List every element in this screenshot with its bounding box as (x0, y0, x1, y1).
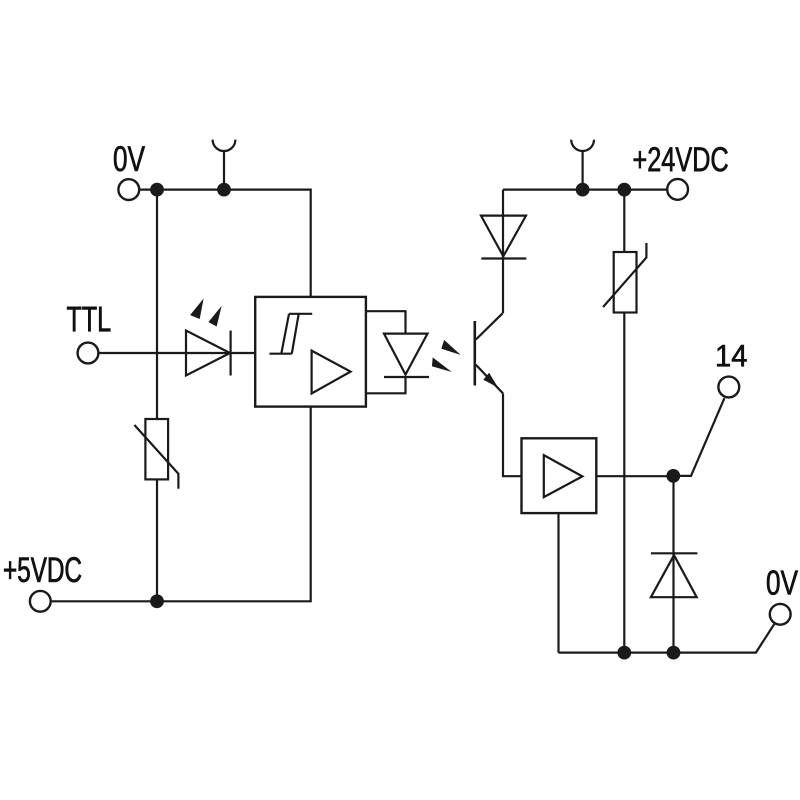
label +5VDC (4, 557, 81, 582)
amplifier box U2 (522, 438, 597, 513)
node A junction (150, 183, 164, 197)
varistor RV2 diagonal (603, 243, 646, 307)
optical coupling arrow 1 (441, 340, 460, 355)
terminal 0V output (770, 604, 791, 625)
varistor RV2 body (614, 252, 637, 313)
wire node F down to zener D4 (672, 476, 674, 653)
wire node A down to varistor RV1 top (156, 190, 158, 419)
wire collector up to diode D3 (502, 190, 504, 314)
opto LED D2 triangle (384, 334, 428, 375)
label +24VDC (634, 147, 728, 172)
wire node E down to varistor RV2 (623, 190, 625, 252)
node F junction (output) (666, 469, 680, 483)
wire Schmitt box bottom to +5VDC rail (157, 407, 311, 602)
node D junction (TP2) (576, 183, 590, 197)
wire amplifier box bottom to rail (557, 513, 559, 653)
test point TP1 stem (223, 151, 225, 190)
LED D1 indicator triangle (186, 331, 230, 376)
hysteresis symbol left slant (281, 314, 289, 354)
wire 0V terminal to node A (140, 189, 157, 191)
test point TP1 arc (213, 140, 236, 151)
terminal 0V input (118, 179, 139, 200)
LED D1 emission arrow 1 (190, 299, 204, 320)
wire Schmitt box to opto LED anode (366, 311, 406, 333)
phototransistor Q1 base bar (473, 321, 476, 386)
amplifier triangle in U2 (544, 455, 583, 497)
node G junction (varistor bottom) (617, 646, 631, 660)
varistor RV1 diagonal (134, 425, 178, 489)
hysteresis symbol bottom line (270, 353, 292, 355)
terminal +5VDC (30, 591, 51, 612)
optical coupling arrow 2 (432, 357, 452, 372)
wire varistor RV2 down to bottom rail (623, 313, 625, 653)
diode D3 triangle (481, 216, 526, 257)
zener diode D4 cathode bar (651, 552, 698, 554)
test point TP2 arc (571, 140, 594, 151)
wire TTL to LED anode (99, 352, 255, 354)
phototransistor Q1 emitter arrow (483, 373, 498, 388)
amplifier triangle in U1 (312, 351, 351, 394)
wire +5VDC terminal to node C (52, 600, 157, 602)
wire 0V rail to Schmitt box top (157, 190, 311, 297)
zener diode D4 triangle (651, 555, 697, 597)
terminal +24VDC (667, 179, 688, 200)
test point TP2 stem (581, 151, 583, 190)
wire bottom 0V rail (559, 624, 775, 652)
LED D1 cathode bar (230, 331, 232, 376)
wire emitter to amplifier box (503, 393, 522, 476)
wire +24VDC rail (503, 189, 666, 191)
label 0V (output side) (767, 570, 798, 595)
phototransistor Q1 collector (476, 313, 503, 339)
varistor RV1 body (145, 419, 168, 479)
wire switch contact to terminal 14 (673, 398, 724, 476)
node E junction (varistor RV2 top) (617, 183, 631, 197)
hysteresis symbol top line (289, 313, 312, 315)
diode D3 cathode bar (481, 257, 526, 259)
label 14 (717, 345, 746, 366)
node B junction (TP1) (217, 183, 231, 197)
Schmitt trigger box U1 (255, 297, 366, 407)
hysteresis symbol right slant (292, 314, 299, 354)
terminal TTL input (78, 343, 99, 364)
node H junction (zener bottom) (667, 646, 681, 660)
LED D1 emission arrow 2 (208, 306, 221, 327)
wire varistor RV1 bottom to +5VDC rail (156, 479, 158, 601)
wire amplifier output to node F (596, 475, 673, 477)
node C junction (150, 594, 164, 608)
label TTL (67, 307, 110, 332)
opto LED D2 cathode bar (384, 376, 429, 378)
terminal 14 (718, 377, 739, 398)
phototransistor Q1 emitter (476, 365, 503, 394)
wire opto LED cathode back to Schmitt box (366, 377, 406, 393)
label 0V (input side) (114, 146, 145, 171)
